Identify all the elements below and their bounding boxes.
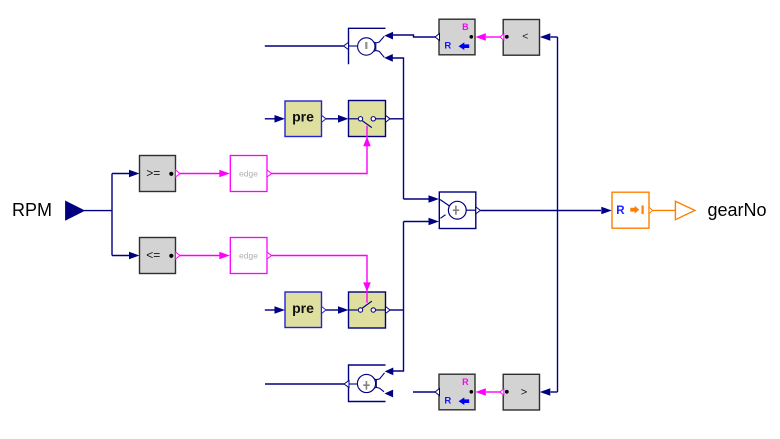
svg-text:edge: edge	[239, 250, 258, 260]
wire bus to greater input	[551, 391, 558, 393]
block pre1	[285, 101, 326, 137]
wire bus lower segment	[393, 222, 404, 372]
wire triggeredAdd1 lower input to bus	[393, 58, 404, 199]
wire triggeredAdd1 output	[265, 45, 344, 47]
svg-text:R: R	[444, 41, 451, 52]
sampler triggeredValueR (bottom)	[435, 374, 475, 410]
wire edge2 to switch2 trigger	[272, 256, 371, 303]
wire B-sampler to triggeredAdd1 upper input	[393, 35, 436, 37]
sampler triggeredValueB (top)	[435, 19, 475, 55]
block edge2	[230, 238, 271, 274]
input connector RPM	[12, 200, 84, 220]
wire pre2 to switch2	[326, 309, 339, 311]
adder triggeredAdd2 (flipped)	[344, 365, 393, 402]
wire node to lessEqual	[112, 255, 130, 257]
wire edge1 to switch1 trigger	[272, 126, 371, 174]
wire right bus	[557, 37, 559, 392]
wire switch2 to bus	[390, 309, 404, 311]
svg-text:pre: pre	[292, 109, 314, 125]
svg-text:edge: edge	[239, 168, 258, 178]
svg-text:>: >	[521, 387, 527, 399]
wire lessEqual to edge2	[180, 255, 220, 257]
adder triggeredAdd1 (flipped)	[344, 28, 394, 64]
wire greaterEqual to edge1	[180, 173, 220, 175]
svg-text:<=: <=	[146, 248, 160, 262]
wire node vertical	[111, 174, 113, 256]
switch1 internals	[349, 115, 391, 127]
wire realToInteger to gearNo	[653, 209, 676, 211]
svg-text:R: R	[616, 205, 625, 217]
wire triggeredAdd2 output	[265, 383, 344, 385]
wire less to triggeredValueB trigger	[486, 36, 500, 38]
switch2 internals	[349, 301, 391, 313]
comparator greaterEqual	[140, 156, 181, 192]
svg-text:gearNo: gearNo	[708, 200, 767, 220]
svg-text:R: R	[462, 377, 469, 387]
wire stub to pre2	[265, 309, 275, 311]
svg-text:>=: >=	[146, 166, 160, 180]
adder add (center)	[439, 192, 480, 229]
wire RPM to node	[84, 210, 112, 212]
wire pre1 to switch1	[326, 118, 339, 120]
block switch1	[349, 101, 386, 137]
svg-text:B: B	[462, 22, 469, 32]
wire bus to less input	[551, 36, 558, 38]
wire bus to adder input1	[404, 198, 430, 200]
svg-text:RPM: RPM	[12, 200, 52, 220]
output connector gearNo	[675, 200, 766, 220]
wire triggeredValueR output	[413, 391, 435, 393]
block switch2	[349, 292, 386, 328]
comparator greater (bottom right)	[500, 374, 540, 410]
block pre2	[285, 292, 326, 328]
svg-text:R: R	[444, 396, 451, 407]
wire switch1 to bus	[390, 118, 404, 120]
wire stub to pre1	[265, 118, 275, 120]
comparator lessEqual	[140, 238, 181, 274]
wire greater to triggeredValueR trigger	[486, 391, 500, 393]
comparator less (top right)	[500, 20, 540, 56]
svg-text:<: <	[522, 31, 528, 43]
wire bus to adder input2	[404, 221, 430, 223]
block edge1	[230, 156, 271, 192]
svg-text:pre: pre	[292, 300, 314, 316]
converter realToInteger	[612, 192, 653, 228]
wire adder output to realToInteger	[481, 210, 602, 212]
wire node to greaterEqual	[112, 173, 130, 175]
